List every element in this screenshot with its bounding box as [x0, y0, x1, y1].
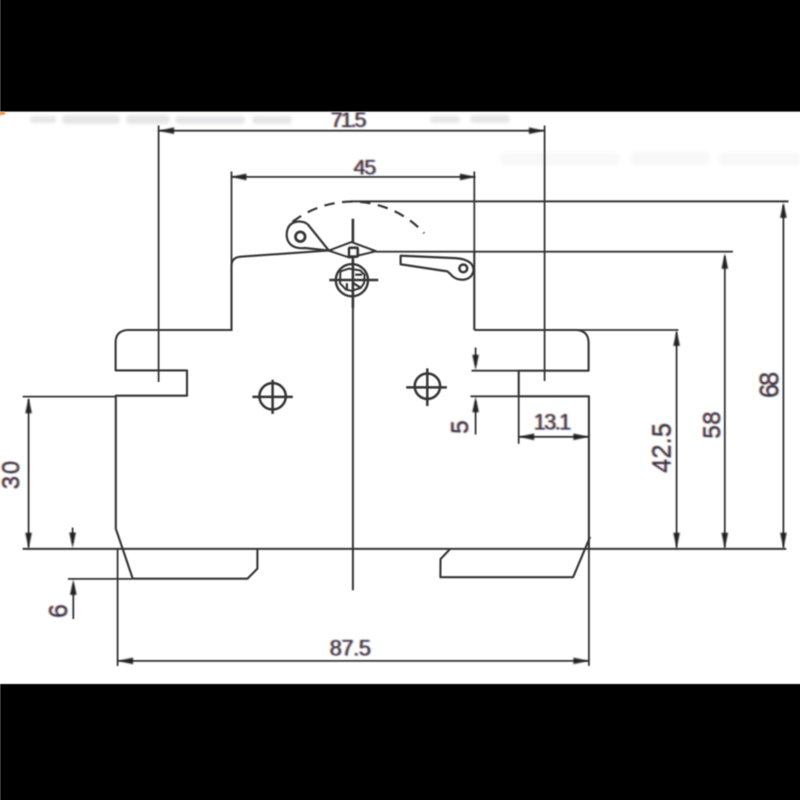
6 upper (points down at plane)	[69, 533, 76, 549]
30	[25, 398, 32, 414]
svg-text:68: 68	[756, 372, 784, 398]
30	[23, 396, 116, 398]
svg-text:58: 58	[699, 411, 726, 439]
dashed travel arc	[293, 202, 425, 234]
pivot square	[349, 248, 358, 257]
toggle knob (diamond)	[329, 242, 376, 257]
svg-text:5: 5	[447, 420, 474, 434]
mounting plane line	[23, 548, 787, 550]
71.5	[159, 127, 175, 134]
left lever arm	[287, 221, 329, 250]
45	[231, 174, 247, 181]
svg-text:87.5: 87.5	[330, 636, 371, 661]
left DIN clip diagonal	[116, 530, 133, 579]
left mounting hole marker	[252, 380, 292, 414]
bottom black bar	[0, 684, 800, 800]
body right upper edge	[473, 252, 475, 330]
svg-text:71.5: 71.5	[331, 108, 367, 132]
svg-text:30: 30	[0, 461, 25, 490]
13.1	[519, 434, 535, 441]
right lever pivot hole	[459, 265, 467, 273]
svg-text:6: 6	[45, 604, 73, 618]
58 line	[724, 256, 726, 548]
svg-text:45: 45	[354, 155, 377, 179]
5 lower (points up)	[472, 397, 479, 413]
body right tab and lower-right block	[474, 330, 589, 549]
6	[72, 528, 74, 543]
42.5	[570, 329, 678, 331]
87.5	[118, 658, 134, 665]
orange artifact left edge	[0, 112, 5, 115]
svg-text:42.5: 42.5	[648, 423, 676, 473]
6 lower (points up at foot bottom)	[70, 579, 77, 595]
right lever arm	[401, 256, 474, 280]
faint ghost text remnants under the bar	[30, 115, 510, 124]
ultra-faint ghost band	[500, 151, 800, 166]
13.1	[518, 396, 520, 444]
vertical centerline	[352, 219, 355, 308]
68 extension	[350, 200, 789, 202]
5 upper (points down)	[472, 355, 479, 371]
71.5	[159, 130, 545, 132]
right mounting hole marker	[406, 368, 447, 406]
top black bar	[0, 0, 800, 112]
surface / 58 extension line to right	[376, 251, 733, 253]
5	[472, 370, 519, 372]
screw slot marks	[355, 274, 362, 276]
68	[780, 202, 787, 218]
screw crosshair horizontal	[329, 279, 378, 281]
left lever pivot hole	[296, 232, 306, 242]
45	[231, 176, 476, 178]
87.5	[118, 660, 589, 662]
svg-text:13.1: 13.1	[534, 409, 571, 434]
body left upper step	[116, 330, 233, 530]
58	[722, 253, 729, 269]
left foot	[133, 549, 258, 579]
right foot	[440, 537, 590, 577]
body top-left column and top surface	[232, 251, 330, 332]
42.5	[673, 330, 680, 346]
screw head circle	[336, 264, 368, 296]
screw hex socket	[340, 269, 365, 291]
